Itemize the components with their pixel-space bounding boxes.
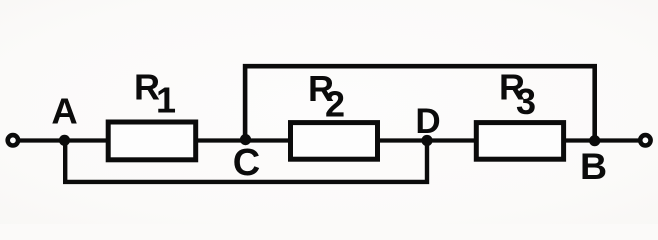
node A (59, 135, 70, 146)
svg-text:D: D (415, 102, 440, 141)
terminal: left open circle (8, 135, 18, 145)
svg-text:A: A (51, 91, 77, 132)
svg-text:B: B (580, 145, 607, 187)
node B (589, 135, 600, 146)
node D (421, 135, 432, 146)
resistor R3 (476, 123, 563, 160)
node C (240, 134, 251, 145)
resistor R1 (108, 122, 196, 160)
wire: top branch from node C up, across, down to node B (245, 66, 595, 140)
terminal: right open circle (640, 135, 650, 145)
wire: main horizontal line from left terminal to right terminal (19, 138, 640, 142)
resistor R2 (291, 123, 378, 160)
wire: bottom branch from node A down, across, up to node D (65, 140, 427, 182)
svg-text:C: C (233, 142, 260, 184)
